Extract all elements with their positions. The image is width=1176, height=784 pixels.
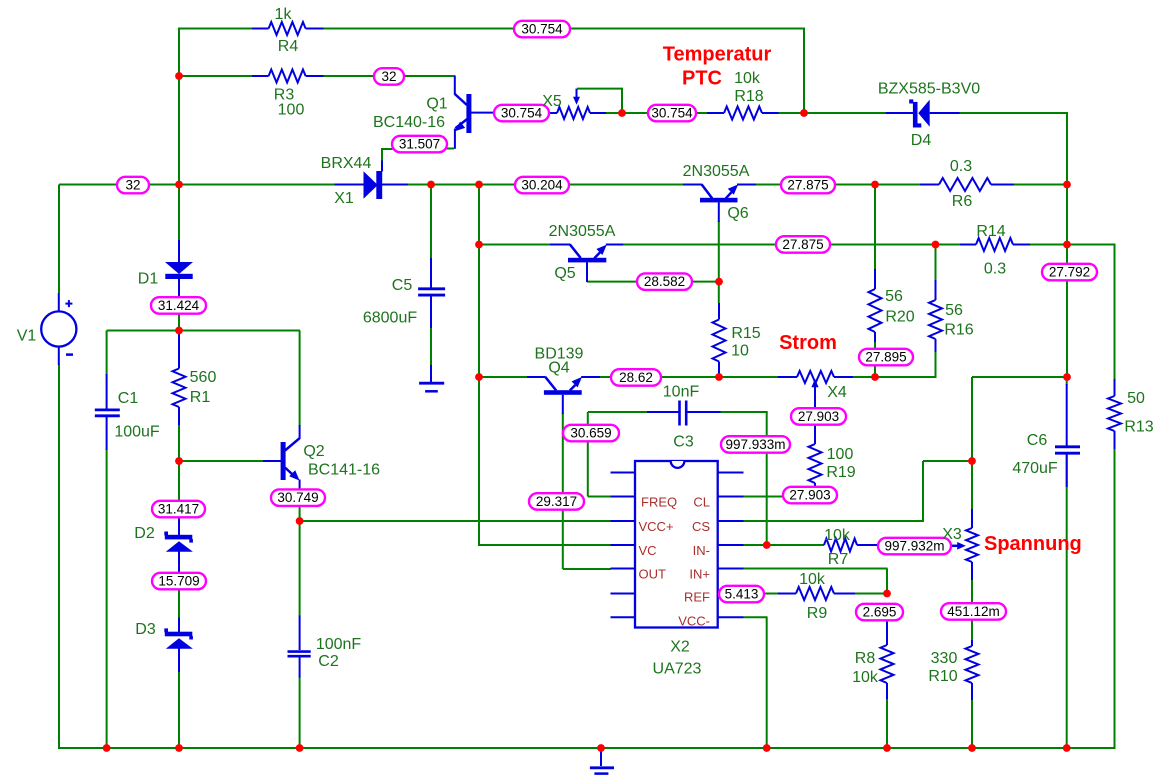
net label Spannung xyxy=(984,533,1082,555)
svg-text:Q2: Q2 xyxy=(303,443,324,460)
wire R15 bottom to X4 row xyxy=(719,375,778,378)
wire top bus net 30.754 xyxy=(179,28,805,30)
value label X3 at 952,539 xyxy=(942,526,962,543)
node value 27.792 xyxy=(1042,264,1097,281)
resistor R4 xyxy=(252,22,324,35)
svg-text:10: 10 xyxy=(731,343,749,360)
svg-text:X2: X2 xyxy=(670,639,690,656)
value label R4 at 288,51 xyxy=(278,38,299,55)
value label D2 at 144.5,538 xyxy=(134,525,155,542)
junction node at 875,184.5 xyxy=(871,181,879,189)
junction node at 299.6,521 xyxy=(296,517,304,525)
value label R20 at 900,321.5 xyxy=(885,309,914,326)
svg-text:D1: D1 xyxy=(138,271,159,288)
svg-text:31.417: 31.417 xyxy=(158,502,199,517)
svg-text:BRX44: BRX44 xyxy=(321,155,372,172)
svg-text:R20: R20 xyxy=(885,309,914,326)
wire V1 top lead xyxy=(58,185,60,294)
value label C6 at 1037,445 xyxy=(1027,432,1048,449)
wire IN+ row xyxy=(743,569,888,595)
value label V1 at 26.5,340.5 xyxy=(17,328,37,345)
svg-text:R7: R7 xyxy=(828,551,849,568)
svg-text:470uF: 470uF xyxy=(1012,460,1058,477)
svg-text:PTC: PTC xyxy=(682,68,722,90)
svg-text:Temperatur: Temperatur xyxy=(663,44,772,66)
value label 10k at 865,682 xyxy=(852,669,879,686)
pin label OUT xyxy=(639,567,667,582)
svg-text:Spannung: Spannung xyxy=(984,533,1082,555)
svg-text:V1: V1 xyxy=(17,328,37,345)
wire node 27.792 to X3 top path xyxy=(972,377,1068,510)
node value 31.417 xyxy=(152,501,205,518)
svg-text:10k: 10k xyxy=(824,527,851,544)
svg-text:27.875: 27.875 xyxy=(782,237,823,252)
value label X4 at 837,397 xyxy=(827,384,847,401)
svg-text:Q5: Q5 xyxy=(554,265,575,282)
svg-text:30.754: 30.754 xyxy=(501,106,543,121)
svg-text:15.709: 15.709 xyxy=(158,574,199,589)
zener diode D2 xyxy=(164,515,193,574)
svg-text:6800uF: 6800uF xyxy=(363,310,417,327)
transistor Q1 xyxy=(454,76,494,149)
svg-text:31.507: 31.507 xyxy=(399,137,440,152)
node value 451.12m xyxy=(941,603,1006,620)
potentiometer X3 xyxy=(951,509,978,580)
value label R15 at 746,338 xyxy=(731,325,760,342)
value label 100 at 840,459 xyxy=(827,446,854,463)
transistor Q6 xyxy=(683,184,756,222)
wire C3 right vertical to IN- node xyxy=(766,412,768,546)
wire REF row R9 xyxy=(764,593,888,595)
svg-text:2N3055A: 2N3055A xyxy=(683,163,750,180)
wire D4 row xyxy=(804,112,1068,114)
value label 100 at 291,114.5 xyxy=(278,102,305,119)
capacitor C3 xyxy=(647,401,721,426)
capacitor C1 xyxy=(95,374,120,450)
pin label REF xyxy=(684,590,710,605)
pin label VC xyxy=(639,543,657,558)
wire Q4 collector vertical to OUT row xyxy=(563,413,611,569)
svg-text:330: 330 xyxy=(931,650,958,667)
svg-text:10nF: 10nF xyxy=(663,384,700,401)
wire X5 wiper xyxy=(577,89,622,113)
svg-text:30.754: 30.754 xyxy=(521,22,563,37)
svg-text:C6: C6 xyxy=(1027,432,1048,449)
wire x1067 vertical D4 to X4 row xyxy=(1066,113,1068,377)
value label 100nF at 338.5,649 xyxy=(316,636,362,653)
svg-text:30.204: 30.204 xyxy=(521,178,563,193)
wire main rail y184 to Q6 base xyxy=(569,184,683,186)
value label UA723 at 677,673.5 xyxy=(653,661,702,678)
svg-text:27.895: 27.895 xyxy=(865,350,906,365)
node value 32 at R3 xyxy=(374,68,404,85)
wire x179 lower segments xyxy=(178,461,180,749)
svg-text:BC141-16: BC141-16 xyxy=(308,462,380,479)
svg-text:0.3: 0.3 xyxy=(984,261,1006,278)
pin label CL xyxy=(693,495,710,510)
value label R10 at 943,681 xyxy=(928,668,957,685)
value label C3 at 683.5,446.5 xyxy=(673,434,694,451)
value label X5 at 552,106 xyxy=(542,93,562,110)
value label 100uF at 137,436.5 xyxy=(114,424,160,441)
resistor R18 xyxy=(707,107,779,120)
zener diode D4 xyxy=(886,99,960,127)
junction node at 179,76 xyxy=(175,72,183,80)
junction node at 179,748 xyxy=(175,744,183,752)
capacitor C6 xyxy=(1055,384,1080,487)
op-amp regulator IC X2 UA723 body and pins xyxy=(611,461,744,628)
value label R13 at 1139,431.5 xyxy=(1124,419,1153,436)
svg-text:997.933m: 997.933m xyxy=(725,437,785,452)
junction node at 935.5,244.5 xyxy=(932,241,940,249)
svg-text:UA723: UA723 xyxy=(653,661,702,678)
svg-text:R18: R18 xyxy=(734,88,763,105)
value label 56 at 954,315 xyxy=(945,302,963,319)
svg-text:R16: R16 xyxy=(944,322,973,339)
junction node at 179,461 xyxy=(175,457,183,465)
svg-text:560: 560 xyxy=(190,369,217,386)
junction node at 479,244.5 xyxy=(475,241,483,249)
value label 0.3 at 995,273.5 xyxy=(984,261,1006,278)
svg-text:50: 50 xyxy=(1127,390,1145,407)
svg-text:10k: 10k xyxy=(734,70,761,87)
wire right vertical x1115 xyxy=(1114,245,1116,750)
node value 27.875 at Q6 xyxy=(781,177,835,194)
net label Strom xyxy=(779,332,837,354)
resistor R16 xyxy=(929,280,942,352)
net label Temperatur xyxy=(663,44,772,66)
svg-text:Q1: Q1 xyxy=(426,96,447,113)
wire X1 gate xyxy=(382,149,393,161)
svg-text:BC140-16: BC140-16 xyxy=(373,114,445,131)
voltage source V1 xyxy=(41,293,76,365)
svg-text:100: 100 xyxy=(827,446,854,463)
value label 6800uF at 390,322.5 xyxy=(363,310,417,327)
value label 10nF at 681,396.5 xyxy=(663,384,700,401)
wire D1 top lead xyxy=(178,185,180,242)
node value 28.582 xyxy=(637,273,692,290)
wire left vertical x179 top xyxy=(178,28,180,186)
node value 31.507 xyxy=(392,136,447,153)
value label 1k at 283,19 xyxy=(275,6,293,23)
resistor R10 xyxy=(966,640,979,700)
junction node at 719,281.6 xyxy=(715,278,723,286)
resistor R1 xyxy=(173,334,186,426)
wire R14 right to x1115 xyxy=(1067,244,1116,246)
capacitor C2 xyxy=(288,616,311,678)
svg-text:27.875: 27.875 xyxy=(787,178,828,193)
node value 32 at V1 xyxy=(117,177,149,194)
resistor R14 xyxy=(960,238,1030,251)
wire C1 branch xyxy=(106,331,108,750)
svg-text:C3: C3 xyxy=(673,434,694,451)
wire R3 row xyxy=(179,75,456,77)
value label R6 at 962,206 xyxy=(952,193,973,210)
svg-text:1k: 1k xyxy=(275,6,293,23)
value label 50 at 1136,403 xyxy=(1127,390,1145,407)
node value 30.204 xyxy=(515,177,569,194)
value label BC140-16 at 409,127 xyxy=(373,114,445,131)
wire C2 branch xyxy=(299,521,301,749)
svg-text:997.932m: 997.932m xyxy=(884,539,944,554)
svg-text:56: 56 xyxy=(945,302,963,319)
junction node at 479,184.5 xyxy=(475,181,483,189)
svg-text:CL: CL xyxy=(693,495,710,510)
resistor R7 xyxy=(824,539,879,552)
transistor Q5 xyxy=(550,244,624,282)
wire main rail y184 mid xyxy=(408,184,515,186)
svg-text:R4: R4 xyxy=(278,38,299,55)
junction node at 622,113 xyxy=(618,109,626,117)
svg-text:30.749: 30.749 xyxy=(277,490,318,505)
svg-text:30.754: 30.754 xyxy=(651,106,693,121)
value label BRX44 at 346,168 xyxy=(321,155,372,172)
node value 31.424 xyxy=(151,297,206,314)
value label Q1 at 437,108.5 xyxy=(426,96,447,113)
wire R16 branch verticals xyxy=(935,245,937,354)
value label X1 at 344,203 xyxy=(334,190,354,207)
value label Q5 at 565,278 xyxy=(554,265,575,282)
value label 2N3055A at 582,236 xyxy=(549,223,616,240)
value label 10 at 740,355.5 xyxy=(731,343,749,360)
wire vertical from top bus to R18 junction xyxy=(803,29,805,114)
wire C5 branch xyxy=(430,185,432,366)
value label 470uF at 1035,473 xyxy=(1012,460,1058,477)
svg-text:C1: C1 xyxy=(118,390,139,407)
junction node at 179,330.5 xyxy=(175,327,183,335)
junction node at 887,748 xyxy=(883,744,891,752)
wire X5 row segments xyxy=(606,112,806,114)
pin label VCC- xyxy=(678,614,710,629)
svg-text:X5: X5 xyxy=(542,93,562,110)
resistor R20 xyxy=(869,269,882,342)
wire R1 bottom to Q2 base row xyxy=(179,424,264,462)
node value 997.933m xyxy=(721,436,790,453)
wire x479 vertical and VC row xyxy=(479,185,611,546)
value label R8 at 865,663 xyxy=(855,650,876,667)
pin label IN- xyxy=(693,543,710,558)
svg-text:31.424: 31.424 xyxy=(158,298,200,313)
value label R14 at 991,236 xyxy=(976,223,1005,240)
svg-text:CS: CS xyxy=(692,519,710,534)
wire CS net path xyxy=(743,461,972,522)
junction node at 1066.7,748 xyxy=(1063,744,1071,752)
value label Q2 at 314,456 xyxy=(303,443,324,460)
junction node at 1067,244.5 xyxy=(1063,241,1071,249)
value label BZX585-B3V0 at 929,93.5 xyxy=(878,81,980,98)
potentiometer X5 xyxy=(549,89,606,119)
wire X4 right to R16 bottom xyxy=(853,352,937,377)
wire R20 branch verticals xyxy=(874,185,876,379)
value label 0.3 at 961,171 xyxy=(950,158,972,175)
svg-text:27.792: 27.792 xyxy=(1049,265,1090,280)
wire C3 row xyxy=(588,411,768,413)
value label R7 at 838,564 xyxy=(828,551,849,568)
value label R3 at 284,99.5 xyxy=(274,87,295,104)
svg-text:32: 32 xyxy=(125,178,140,193)
svg-text:VCC-: VCC- xyxy=(678,614,710,629)
wire Q5 base row xyxy=(479,244,551,246)
svg-text:IN+: IN+ xyxy=(689,567,710,582)
svg-text:OUT: OUT xyxy=(639,567,667,582)
value label R16 at 959,334.5 xyxy=(944,322,973,339)
value label 56 at 894,301 xyxy=(885,288,903,305)
transistor Q4 xyxy=(527,377,600,414)
junction node at 766.7,748 xyxy=(763,744,771,752)
junction node at 1067,377 xyxy=(1063,373,1071,381)
node value 27.895 xyxy=(859,349,913,366)
value label 10k at 837,540 xyxy=(824,527,851,544)
node value 27.903 upper xyxy=(791,408,846,425)
node value 30.659 xyxy=(563,425,619,442)
node value 5.413 xyxy=(719,586,764,603)
value label Q4 at 559,372.5 xyxy=(548,360,569,377)
junction node at 431,184.5 xyxy=(427,181,435,189)
svg-text:R19: R19 xyxy=(826,464,855,481)
junction node at 1067,184.5 xyxy=(1063,181,1071,189)
wire C6 branch xyxy=(1066,377,1068,749)
resistor R13 xyxy=(1108,379,1121,449)
svg-text:10k: 10k xyxy=(799,571,826,588)
value label 10k at 812,584 xyxy=(799,571,826,588)
value label D1 at 148,283.5 xyxy=(138,271,159,288)
wire Q1 emitter to bubble 31.507 xyxy=(447,148,455,150)
svg-text:Strom: Strom xyxy=(779,332,837,354)
node value 29.317 xyxy=(529,493,584,510)
svg-text:2.695: 2.695 xyxy=(863,605,897,620)
svg-text:C2: C2 xyxy=(318,653,339,670)
svg-text:BZX585-B3V0: BZX585-B3V0 xyxy=(878,81,980,98)
junction node at 972,461 xyxy=(968,457,976,465)
junction node at 601,748 xyxy=(597,744,605,752)
svg-text:X4: X4 xyxy=(827,384,847,401)
potentiometer X4 xyxy=(778,371,853,409)
value label Q6 at 738,218 xyxy=(727,205,748,222)
svg-text:2N3055A: 2N3055A xyxy=(549,223,616,240)
wire CL row to R19 bottom xyxy=(743,483,816,497)
svg-text:VC: VC xyxy=(639,543,657,558)
svg-text:R8: R8 xyxy=(855,650,876,667)
thyristor X1 xyxy=(335,161,408,200)
wire Q2 emitter node to VCC+ row xyxy=(300,505,611,522)
value label R19 at 841,477 xyxy=(826,464,855,481)
wire FREQ net vertical xyxy=(588,412,611,497)
svg-text:D2: D2 xyxy=(134,525,155,542)
svg-text:5.413: 5.413 xyxy=(725,587,759,602)
value label X2 at 680,651.5 xyxy=(670,639,690,656)
value label 330 at 944,663 xyxy=(931,650,958,667)
value label C5 at 402,290 xyxy=(392,277,413,294)
wire Q4 base lead xyxy=(479,376,527,378)
pin label FREQ xyxy=(641,495,677,510)
value label 10k at 747,83 xyxy=(734,70,761,87)
wire R6 to corner xyxy=(1013,184,1067,186)
svg-text:451.12m: 451.12m xyxy=(947,604,1000,619)
svg-text:28.62: 28.62 xyxy=(619,370,653,385)
resistor R3 xyxy=(252,70,324,83)
transistor Q2 xyxy=(263,425,300,491)
node value 997.932m xyxy=(878,538,951,555)
wire Q5 collector row net 28.582 xyxy=(587,281,719,283)
wire Q5 emitter row xyxy=(624,244,776,246)
svg-text:100uF: 100uF xyxy=(114,424,160,441)
svg-text:R13: R13 xyxy=(1124,419,1153,436)
node value 28.62 xyxy=(611,369,661,386)
svg-text:32: 32 xyxy=(381,69,396,84)
svg-text:C5: C5 xyxy=(392,277,413,294)
pin label VCC+ xyxy=(639,519,674,534)
value label D3 at 145.5,634 xyxy=(135,621,156,638)
pin label IN+ xyxy=(689,567,710,582)
wire V1 bottom lead xyxy=(58,364,60,749)
value label 560 at 203,382 xyxy=(190,369,217,386)
svg-text:D4: D4 xyxy=(911,132,932,149)
junction node at 804,113 xyxy=(800,109,808,117)
junction node at 972,748 xyxy=(968,744,976,752)
svg-text:IN-: IN- xyxy=(693,543,710,558)
svg-text:R15: R15 xyxy=(731,325,760,342)
value label D4 at 921,145 xyxy=(911,132,932,149)
svg-text:R14: R14 xyxy=(976,223,1005,240)
node value 27.875 at R14 xyxy=(776,236,830,253)
diode D1 xyxy=(165,240,193,298)
junction node at 299.6,748 xyxy=(296,744,304,752)
node value 15.709 xyxy=(152,573,206,590)
svg-text:56: 56 xyxy=(885,288,903,305)
capacitor C5 xyxy=(418,258,445,328)
svg-text:VCC+: VCC+ xyxy=(639,519,674,534)
svg-text:X3: X3 xyxy=(942,526,962,543)
node value 27.903 lower xyxy=(783,487,837,504)
value label BC141-16 at 344,474.5 xyxy=(308,462,380,479)
node value 30.749 xyxy=(271,489,325,506)
junction node at 719,377 xyxy=(715,373,723,381)
wire R8 branch xyxy=(886,698,888,749)
junction node at 875,377 xyxy=(871,373,879,381)
junction node at 179,184.5 xyxy=(175,181,183,189)
svg-text:D3: D3 xyxy=(135,621,156,638)
svg-text:29.317: 29.317 xyxy=(536,494,577,509)
svg-text:REF: REF xyxy=(684,590,710,605)
ground C5 xyxy=(419,365,444,391)
svg-text:30.659: 30.659 xyxy=(570,426,611,441)
svg-text:10k: 10k xyxy=(852,669,879,686)
value label R9 at 817,618 xyxy=(807,605,828,622)
svg-text:R10: R10 xyxy=(928,668,957,685)
value label C1 at 128,403 xyxy=(118,390,139,407)
resistor R9 xyxy=(778,587,855,600)
wire D1 bottom to node xyxy=(178,313,180,331)
svg-text:0.3: 0.3 xyxy=(950,158,972,175)
ground main xyxy=(590,748,614,774)
junction node at 887,593.5 xyxy=(883,590,891,598)
svg-text:100: 100 xyxy=(278,102,305,119)
svg-text:100nF: 100nF xyxy=(316,636,362,653)
node value 30.754 at X5 xyxy=(648,105,696,122)
value label R1 at 200,402 xyxy=(190,389,211,406)
svg-text:R1: R1 xyxy=(190,389,211,406)
wire bottom bus xyxy=(58,747,1115,749)
wire Q6 collector vertical xyxy=(718,221,720,303)
wire Q4 emitter to bubble 28.62 xyxy=(600,376,719,378)
wire node 31.424 row xyxy=(107,331,300,427)
value label BD139 at 559,358.5 xyxy=(535,346,584,363)
wire IN- row to R7 xyxy=(743,544,824,546)
svg-text:FREQ: FREQ xyxy=(641,495,677,510)
junction node at 106.6,748 xyxy=(103,744,111,752)
svg-text:27.903: 27.903 xyxy=(798,409,839,424)
node value 30.754 top xyxy=(514,21,570,38)
